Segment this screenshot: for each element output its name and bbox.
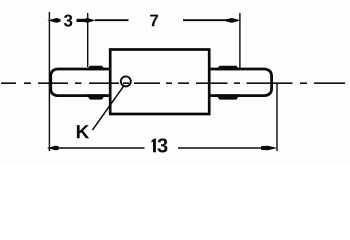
extension line left (shared by dims 3 and 13) [48, 12, 50, 151]
thread relief groove right-top [216, 66, 240, 71]
left stud (threaded end with chamfer) [51, 69, 110, 96]
dim 7 value [150, 15, 158, 27]
right stud (threaded end with chamfer) [209, 69, 271, 96]
thread relief groove right-bottom [216, 94, 240, 99]
dimension line 3: left arrow [47, 18, 58, 23]
extension line at left groove edge (dim 3 right / dim 7 left) [87, 13, 89, 67]
dimension line 13: left arrow [47, 146, 59, 151]
dim 3 value [64, 15, 72, 27]
label K [77, 125, 89, 138]
dim 13 value: digit 1 [152, 139, 156, 153]
dimension line 13: left segment [57, 147, 145, 149]
hole / feature circle K [121, 76, 131, 86]
dimension line 3: right arrow (into shared extension) [77, 19, 88, 22]
thread relief groove left-top [86, 66, 106, 71]
dimension line 13: right segment [178, 147, 262, 149]
dimension line 13: right arrow [261, 146, 277, 151]
extension line right end (dim 13 right) [276, 84, 278, 151]
dimension line 7: right segment [183, 19, 227, 21]
leader line from circle to K label [93, 87, 124, 130]
thread relief groove left-bottom [86, 94, 106, 99]
dim 13 value: digit 3 [158, 138, 168, 152]
dimension line 7: left segment [95, 19, 129, 21]
dimension line 7: right arrow [230, 18, 242, 23]
body: central block [110, 50, 209, 115]
centerline (dash-dot axis) [1, 82, 345, 84]
extension line at right groove edge (dim 7 right) [239, 13, 241, 68]
